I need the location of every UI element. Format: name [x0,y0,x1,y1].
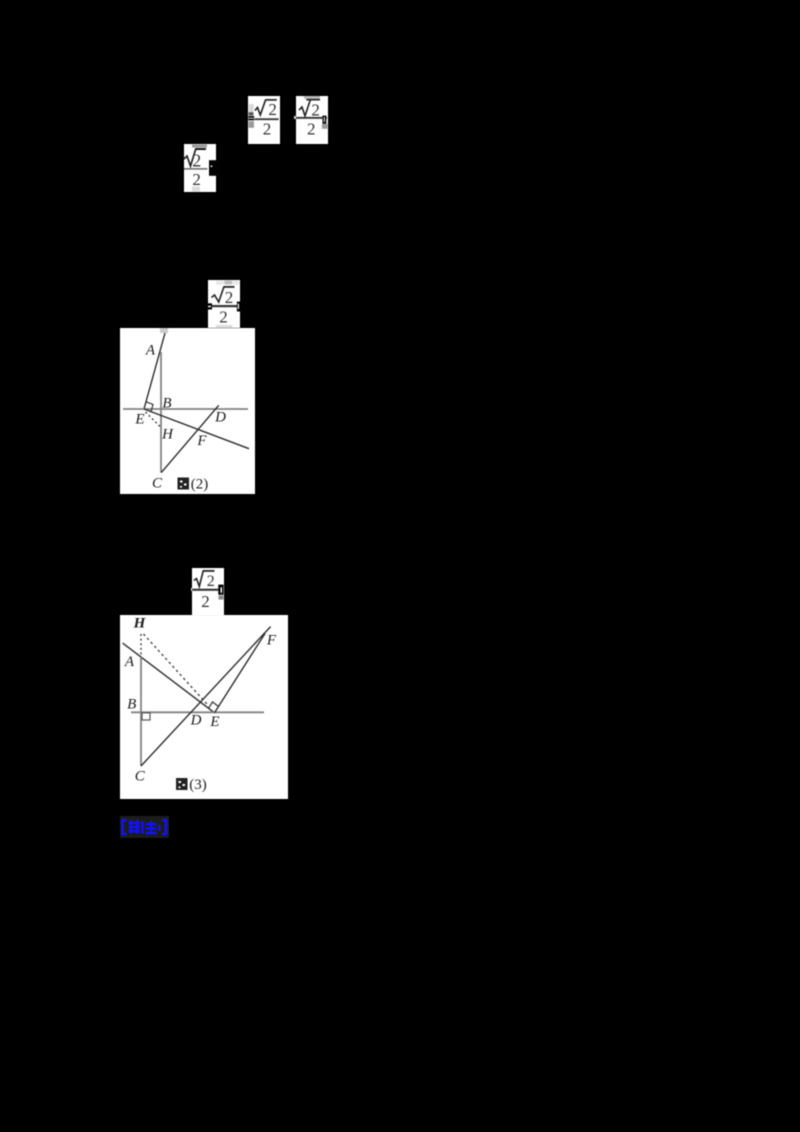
svg-text:2: 2 [225,288,234,307]
caption 图(3) [176,777,207,793]
glyph blob 2 [143,821,157,834]
equation image box EQ1 (sqrt2/2) [248,96,280,144]
svg-text:D: D [190,713,202,729]
gray nub at top where line AE exits [160,328,168,333]
equation image box EQ3 (sqrt2/2) [184,144,216,192]
svg-text:2: 2 [311,101,320,120]
svg-text:C: C [135,769,146,785]
right angle mark at E [146,402,153,412]
svg-text:2: 2 [219,308,228,327]
svg-text:A: A [145,343,156,359]
glyph blob 1 [129,820,141,834]
line C-F [141,627,271,766]
vertical line A-B-C [140,657,142,766]
svg-text:B: B [162,396,171,412]
equation image box EQ5 (sqrt2/2) [191,588,193,591]
figure panel 图(3) [120,615,288,799]
equation image box EQ4 (sqrt2/2) [208,280,240,328]
svg-text:E: E [209,714,219,730]
line E-F [215,634,266,713]
svg-text:2: 2 [201,592,210,611]
svg-text:H: H [161,427,174,443]
right angle square at B [142,713,150,720]
svg-text:2: 2 [307,120,316,139]
svg-text:B: B [127,697,136,713]
line A-E [123,643,215,713]
svg-text:C: C [152,476,163,492]
svg-text:2: 2 [268,100,277,119]
svg-text:F: F [266,633,277,649]
svg-text:2: 2 [263,120,272,139]
horizontal line B-D-E [131,711,264,713]
svg-text:2: 2 [192,170,201,189]
line D-C [161,405,218,472]
figure panel 图(2) [120,328,255,494]
svg-text:(3): (3) [189,777,207,793]
left bracket glyph [123,820,127,834]
svg-text:D: D [214,410,226,426]
vertical line B-C [160,352,162,473]
right bracket glyph [162,820,166,834]
right angle mark at E [209,702,219,708]
svg-text:E: E [134,412,144,428]
dotted line E-H [146,412,162,428]
svg-text:2: 2 [207,573,215,590]
svg-text:2: 2 [192,151,201,171]
svg-text:F: F [196,433,207,449]
stray blue dot [158,825,160,831]
line A-E [144,333,165,409]
line E-F extended right [144,409,249,449]
dotted diagonal H-D [144,634,207,704]
svg-text:(2): (2) [191,477,209,493]
equation image box EQ2 (sqrt2/2) [294,116,296,119]
caption 图(2) [178,477,209,493]
horizontal line through E,B,D [123,408,248,410]
svg-text:H: H [133,616,147,632]
dotted vertical H-A [140,634,142,657]
blue annotation text block [120,816,169,838]
svg-text:A: A [124,654,135,670]
